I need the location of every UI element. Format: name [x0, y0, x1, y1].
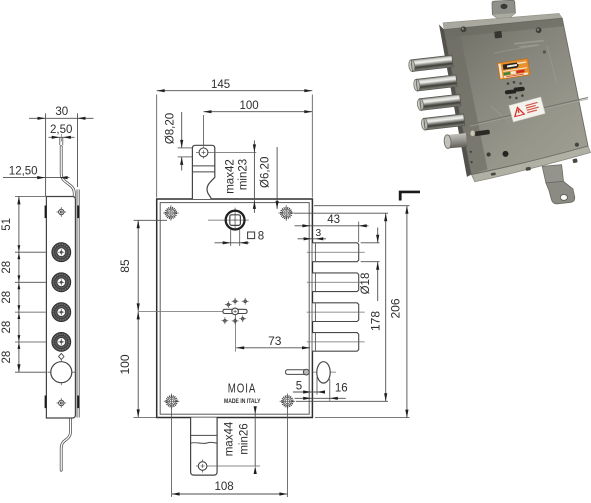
svg-text:MADE IN ITALY: MADE IN ITALY: [224, 398, 261, 405]
svg-text:28: 28: [1, 261, 13, 274]
svg-text:min26: min26: [239, 423, 251, 454]
svg-text:100: 100: [118, 354, 132, 374]
svg-text:28: 28: [1, 321, 13, 334]
svg-text:MOIA: MOIA: [228, 382, 257, 396]
svg-text:51: 51: [1, 218, 13, 231]
svg-text:43: 43: [327, 214, 340, 226]
svg-text:30: 30: [55, 106, 68, 118]
svg-text:5: 5: [296, 381, 302, 393]
svg-text:Ø18: Ø18: [360, 273, 372, 295]
svg-text:min23: min23: [238, 159, 250, 190]
svg-text:16: 16: [335, 382, 348, 394]
svg-text:8: 8: [258, 231, 264, 243]
svg-text:28: 28: [1, 291, 13, 304]
svg-text:12,50: 12,50: [9, 165, 38, 177]
svg-text:108: 108: [215, 481, 234, 493]
svg-text:Ø8,20: Ø8,20: [164, 113, 176, 144]
svg-text:145: 145: [211, 79, 230, 91]
svg-text:Ø6,20: Ø6,20: [260, 157, 272, 188]
svg-text:28: 28: [1, 351, 13, 364]
svg-text:100: 100: [240, 100, 259, 112]
svg-text:206: 206: [389, 298, 403, 318]
svg-text:max44: max44: [223, 421, 235, 456]
svg-text:73: 73: [268, 334, 282, 348]
svg-text:max42: max42: [224, 159, 236, 194]
svg-text:3: 3: [315, 227, 321, 239]
svg-text:85: 85: [118, 259, 132, 273]
svg-text:178: 178: [368, 311, 382, 331]
